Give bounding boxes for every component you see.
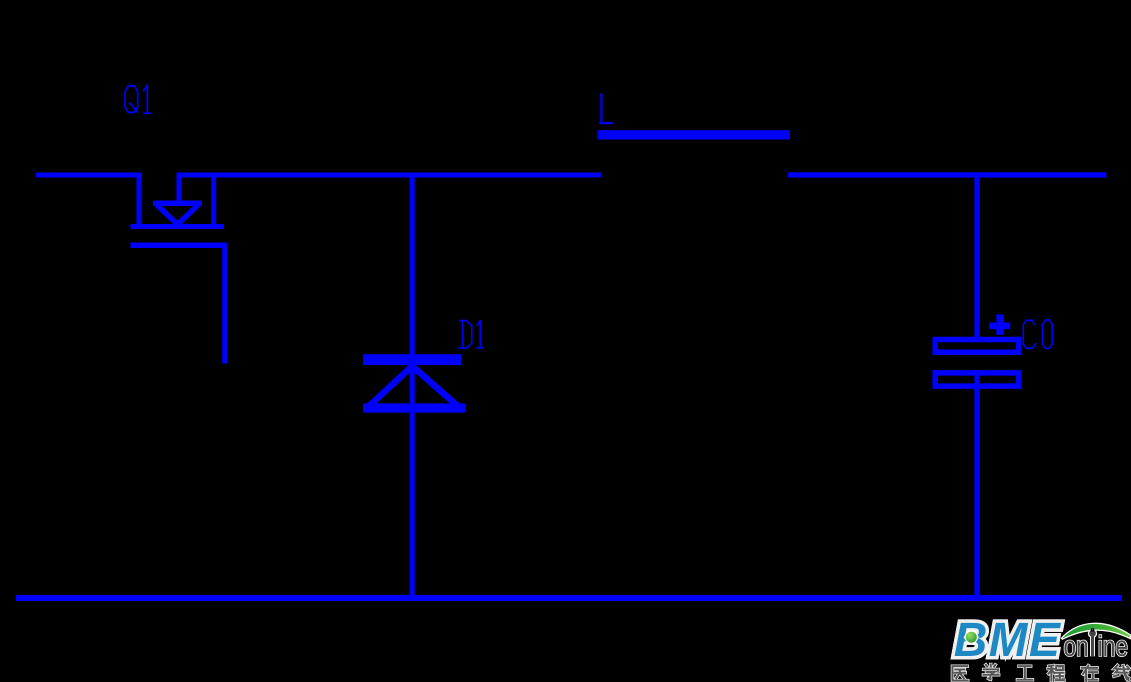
- hex nut and green ball on B: [964, 631, 979, 644]
- label Q1: [125, 85, 150, 113]
- wire diode branch (top rail to bottom rail): [410, 177, 415, 601]
- online text: [1064, 635, 1127, 656]
- chinese caption 医学工程在线: [952, 664, 1128, 681]
- inductor L (solid bar): [598, 130, 791, 139]
- swoosh: [1062, 623, 1131, 639]
- capacitor C0 top plate: [935, 340, 1018, 353]
- wire top rail left segment: [36, 173, 142, 178]
- wire top rail middle segment: [177, 173, 602, 178]
- wire capacitor branch lower: [974, 370, 979, 600]
- logo BME online: [952, 623, 1130, 681]
- char 工: [1017, 666, 1032, 680]
- wire Q1 gate lead: [222, 248, 227, 364]
- label C0: [1023, 320, 1052, 349]
- char 医: [952, 666, 967, 680]
- wire capacitor branch upper: [974, 177, 979, 338]
- polarity plus mark: [989, 314, 1010, 334]
- char 线: [1114, 665, 1129, 680]
- wrench l glyph: [1088, 628, 1097, 656]
- wire bottom rail: [16, 595, 1122, 601]
- BME text: [955, 623, 1061, 656]
- label L: [600, 94, 612, 123]
- capacitor C0 bottom plate: [935, 373, 1018, 386]
- wire top rail right segment: [788, 172, 1106, 177]
- transistor Q1 (P-channel MOSFET): [131, 173, 228, 249]
- diode D1: [363, 354, 465, 412]
- label D1: [459, 320, 483, 348]
- char 程: [1048, 666, 1064, 681]
- char 学: [983, 664, 998, 679]
- char 在: [1082, 666, 1098, 681]
